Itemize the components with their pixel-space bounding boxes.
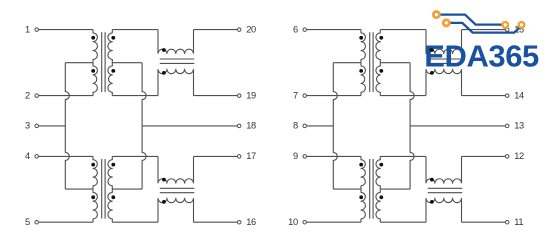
wire L1 to pin 19 xyxy=(194,95,238,97)
logo trace lower xyxy=(449,23,520,33)
pin 15 terminal xyxy=(505,24,524,34)
svg-text:18: 18 xyxy=(246,121,256,131)
transformer T4 core xyxy=(370,159,373,219)
wire L3 to pin 15 xyxy=(462,29,506,31)
transformer T3 secondary upper winding xyxy=(376,30,383,63)
logo via pad 4 xyxy=(518,21,526,29)
transformer T4 secondary upper winding xyxy=(376,156,383,189)
transformer T2 primary upper winding xyxy=(91,156,97,189)
pin 3 terminal xyxy=(25,121,38,131)
wire L4 to pin 11 xyxy=(462,221,506,223)
pin 14 terminal xyxy=(505,90,524,100)
transformer T2 secondary lower winding xyxy=(108,189,115,222)
choke L1 right upper stub wire xyxy=(193,30,195,54)
wire T4 secondary center tap xyxy=(380,188,410,190)
wire L1 to pin 20 xyxy=(194,29,238,31)
secondary center-tap rail (pin 18) with crossover hops xyxy=(142,63,146,189)
svg-text:14: 14 xyxy=(514,90,524,100)
pin 4 terminal xyxy=(25,151,38,161)
choke L1 left lower stub wire xyxy=(157,69,159,95)
transformer T3 primary lower winding xyxy=(359,63,365,96)
svg-text:EDA365: EDA365 xyxy=(424,38,539,73)
svg-text:13: 13 xyxy=(514,121,524,131)
pin 10 terminal xyxy=(288,217,306,227)
choke L1 core xyxy=(160,59,195,63)
choke L4 upper winding xyxy=(426,178,462,183)
logo via pad 1 xyxy=(432,10,441,19)
choke L2 upper winding xyxy=(158,178,194,183)
wire L2 to pin 17 xyxy=(194,155,238,157)
pin 17 terminal xyxy=(237,151,256,161)
choke L2 lower winding xyxy=(158,198,194,204)
transformer T1 secondary upper winding xyxy=(108,30,115,63)
pin 5 terminal xyxy=(25,217,38,227)
svg-text:6: 6 xyxy=(293,24,298,34)
logo via pad 2 xyxy=(442,19,451,28)
pin 11 terminal xyxy=(505,217,523,227)
svg-text:7: 7 xyxy=(293,90,298,100)
wire pin 10 to T4 primary bottom xyxy=(307,221,361,223)
transformer T2 secondary upper winding xyxy=(108,156,115,189)
svg-text:8: 8 xyxy=(293,121,298,131)
wire T2 secondary center tap xyxy=(112,188,142,190)
svg-text:3: 3 xyxy=(25,121,30,131)
choke L4 core xyxy=(428,188,463,192)
transformer T3 secondary lower winding xyxy=(376,63,383,96)
wire secondary rail to pin 18 xyxy=(142,125,237,127)
transformer T3 core xyxy=(370,32,373,92)
choke L3 upper winding phase dot (over logo) xyxy=(430,48,434,52)
choke L1 right lower stub wire xyxy=(193,69,195,95)
wire T4 secondary top to L4 xyxy=(380,155,426,157)
pin 19 terminal xyxy=(237,90,256,100)
choke L4 right lower stub wire xyxy=(461,198,463,222)
transformer T4 secondary lower winding xyxy=(376,189,383,222)
wire T4 primary center tap xyxy=(333,188,361,190)
wire pin 4 to T2 primary top xyxy=(39,155,93,157)
choke L3 right lower stub wire xyxy=(461,69,463,95)
choke L3 core xyxy=(428,59,463,63)
secondary center-tap rail (pin 13) with crossover hops xyxy=(410,63,414,189)
transformer T1 primary upper winding xyxy=(91,30,97,63)
transformer T2 core xyxy=(102,159,105,219)
choke L3 upper winding xyxy=(426,48,462,54)
wire T1 secondary center tap xyxy=(112,62,142,64)
wire pin 8 to center-tap rail xyxy=(307,125,334,127)
wire T3 secondary top to L3 xyxy=(380,29,426,31)
wire L4 to pin 12 xyxy=(462,155,506,157)
pin 18 terminal xyxy=(237,121,256,131)
svg-text:4: 4 xyxy=(25,151,30,161)
choke L4 left upper stub wire xyxy=(425,156,427,183)
pin 2 terminal xyxy=(25,90,38,100)
logo trace upper xyxy=(439,15,503,25)
wire T1 primary center tap xyxy=(65,62,93,64)
transformer T2 primary lower winding xyxy=(91,189,97,222)
choke L3 right upper stub wire xyxy=(461,30,463,54)
svg-text:1: 1 xyxy=(25,24,30,34)
svg-text:9: 9 xyxy=(293,151,298,161)
wire pin 5 to T2 primary bottom xyxy=(39,221,93,223)
choke L3 left upper stub wire xyxy=(425,30,427,54)
choke L2 right lower stub wire xyxy=(193,198,195,222)
wire pin 9 to T4 primary top xyxy=(307,155,361,157)
wire pin 7 to T3 primary bottom xyxy=(307,95,361,97)
transformer T3 primary upper winding xyxy=(359,30,365,63)
wire T1 secondary top to L1 xyxy=(112,29,158,31)
wire pin 3 to center-tap rail xyxy=(39,125,66,127)
transformer T4 primary upper winding xyxy=(359,156,365,189)
pin 8 terminal xyxy=(293,121,306,131)
svg-text:17: 17 xyxy=(246,151,256,161)
svg-text:20: 20 xyxy=(246,24,256,34)
wire pin 1 to T1 primary top xyxy=(39,29,93,31)
svg-text:16: 16 xyxy=(246,217,256,227)
pin 20 terminal xyxy=(237,24,256,34)
svg-text:5: 5 xyxy=(25,217,30,227)
EDA365 logo wordmark xyxy=(424,38,539,73)
wire L3 to pin 14 xyxy=(462,95,506,97)
choke L2 right upper stub wire xyxy=(193,156,195,183)
wire T3 secondary center tap xyxy=(380,62,410,64)
choke L2 core xyxy=(160,188,195,192)
svg-text:12: 12 xyxy=(514,151,524,161)
choke L4 left lower stub wire xyxy=(425,198,427,222)
pin 7 terminal xyxy=(293,90,306,100)
wire T2 primary center tap xyxy=(65,188,93,190)
choke L1 left upper stub wire xyxy=(157,30,159,54)
wire secondary rail to pin 13 xyxy=(410,125,505,127)
wire T3 primary center tap xyxy=(333,62,361,64)
transformer T1 secondary lower winding xyxy=(108,63,115,96)
wire T2 secondary bottom to L2 xyxy=(112,221,158,223)
logo via pad 3 xyxy=(501,21,509,29)
wire pin 2 to T1 primary bottom xyxy=(39,95,93,97)
choke L1 lower winding xyxy=(158,69,194,75)
wire L2 to pin 16 xyxy=(194,221,238,223)
pin 1 terminal xyxy=(25,24,38,34)
transformer T4 primary lower winding xyxy=(359,189,365,222)
wire T4 secondary bottom to L4 xyxy=(380,221,426,223)
svg-text:2: 2 xyxy=(25,90,30,100)
wire T1 secondary bottom to L1 xyxy=(112,95,158,97)
svg-text:10: 10 xyxy=(288,217,298,227)
choke L3 lower winding xyxy=(426,69,462,75)
pin 9 terminal xyxy=(293,151,306,161)
choke L3 left lower stub wire xyxy=(425,69,427,95)
choke L2 left lower stub wire xyxy=(157,198,159,222)
choke L2 left upper stub wire xyxy=(157,156,159,183)
primary center-tap rail (pin 8) with crossover hops xyxy=(333,63,337,189)
svg-text:19: 19 xyxy=(246,90,256,100)
transformer T1 primary lower winding xyxy=(91,63,97,96)
pin 16 terminal xyxy=(237,217,256,227)
choke L1 upper winding xyxy=(158,48,194,54)
svg-text:11: 11 xyxy=(514,217,523,227)
pin 12 terminal xyxy=(505,151,524,161)
pin 13 terminal xyxy=(505,121,524,131)
wire T3 secondary bottom to L3 xyxy=(380,95,426,97)
primary center-tap rail (pin 3) with crossover hops xyxy=(65,63,69,189)
pin 6 terminal xyxy=(293,24,306,34)
transformer T1 core xyxy=(102,32,105,92)
choke L4 right upper stub wire xyxy=(461,156,463,183)
wire pin 6 to T3 primary top xyxy=(307,29,361,31)
wire T2 secondary top to L2 xyxy=(112,155,158,157)
choke L4 lower winding xyxy=(426,198,462,204)
